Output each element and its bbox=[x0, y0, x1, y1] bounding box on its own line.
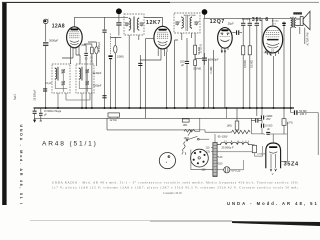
svg-text:.25μF: .25μF bbox=[227, 21, 234, 25]
svg-text:25V: 25V bbox=[266, 118, 271, 121]
svg-text:1/2: 1/2 bbox=[271, 50, 275, 53]
wire cap to IFT1 bottom bbox=[118, 26, 120, 36]
resistor on AVC small bbox=[182, 119, 189, 127]
svg-text:6V 0,25: 6V 0,25 bbox=[231, 168, 240, 172]
capacitor 50000pF under 12Q7 bbox=[198, 53, 207, 65]
wire mid columns bbox=[195, 50, 214, 108]
wire filter a bbox=[251, 108, 262, 120]
capacitor pair left of 35L6 b bbox=[248, 23, 252, 26]
capacitor 50MF bbox=[294, 110, 298, 115]
tube 12A8 bbox=[67, 27, 83, 48]
border left black bar bbox=[2, 2, 6, 205]
resistor diode load bbox=[194, 45, 197, 54]
svg-text:+4μF: +4μF bbox=[264, 51, 270, 54]
svg-text:15 000Ω 2 Mega: 15 000Ω 2 Mega bbox=[44, 111, 62, 113]
12K7 pin wires bbox=[158, 47, 167, 61]
wire 12K7 area columns bbox=[129, 44, 161, 108]
wire AVC cap to bus bbox=[110, 59, 112, 108]
wire speaker down bbox=[300, 27, 305, 44]
resistor box 12A8 screen bbox=[91, 47, 94, 54]
wire bar top up bbox=[214, 134, 216, 143]
IF transformer 2 bbox=[174, 13, 200, 33]
svg-text:μF: μF bbox=[181, 64, 184, 67]
svg-text:110: 110 bbox=[206, 146, 210, 149]
wire lamp bbox=[217, 160, 243, 170]
svg-text:7260pF: 7260pF bbox=[93, 83, 102, 87]
svg-text:35Z4: 35Z4 bbox=[284, 162, 299, 168]
svg-text:UNDA - Modd. AR 48, 51: UNDA - Modd. AR 48, 51 bbox=[227, 201, 317, 206]
volume pot bbox=[184, 129, 196, 140]
wire switch drop bbox=[182, 152, 186, 155]
AVC bus line bbox=[34, 117, 262, 119]
wire 35L6 cathode to bus bbox=[273, 56, 275, 108]
svg-text:12K7: 12K7 bbox=[146, 20, 161, 26]
third line (heater return) bbox=[107, 129, 184, 131]
svg-text:117 V; platea 12A8 125 V; sche: 117 V; platea 12A8 125 V; schermo 12A8 e… bbox=[52, 186, 298, 191]
svg-text:μF: μF bbox=[44, 115, 47, 117]
35Z4 cathode arrows bbox=[270, 169, 276, 176]
wire IFT2 column bbox=[167, 38, 187, 108]
electrolytic +10MF bbox=[261, 115, 273, 121]
capacitor pair left of 35L6 a bbox=[241, 23, 245, 26]
antenna terminal bbox=[43, 19, 48, 24]
svg-text:1 5 0 V: 1 5 0 V bbox=[224, 141, 249, 143]
resistor box right of chain bbox=[252, 145, 256, 152]
resistor 12K box on AVC bbox=[108, 113, 120, 122]
wire dot2 down bbox=[204, 15, 206, 19]
wire gnd b bbox=[40, 108, 42, 121]
svg-text:3000pF: 3000pF bbox=[49, 39, 58, 43]
12A8 top cap wire bbox=[73, 17, 75, 26]
wire dot1 down bbox=[118, 14, 120, 22]
IFT2 bottom stubs bbox=[182, 33, 192, 40]
svg-text:10 000: 10 000 bbox=[272, 21, 279, 23]
speaker bbox=[296, 11, 310, 30]
autotransformer tapped bbox=[213, 143, 217, 177]
svg-text:ALTOP. PM: ALTOP. PM bbox=[306, 33, 309, 46]
wire resistor columns to bus bbox=[243, 55, 250, 108]
pilot lamp bbox=[224, 167, 241, 173]
wire oval resistor bbox=[110, 38, 121, 108]
svg-text:20Ω: 20Ω bbox=[180, 60, 185, 63]
tube socket A bbox=[159, 153, 175, 169]
filter capacitor pair small bbox=[255, 119, 258, 123]
bus junction dots bbox=[45, 107, 292, 109]
bottom right page-edge wedge bbox=[232, 221, 320, 226]
wire bus to AVC drop bbox=[226, 108, 228, 118]
bottom hairline faint bbox=[30, 219, 150, 221]
svg-text:0,1M 25: 0,1M 25 bbox=[257, 154, 266, 156]
svg-text:1MΩ: 1MΩ bbox=[227, 124, 232, 127]
svg-text:[15]: [15] bbox=[13, 95, 17, 100]
wire IFT1 to 12K7 top bbox=[144, 18, 163, 27]
wire OPT primary bbox=[284, 17, 291, 108]
svg-text:+: + bbox=[263, 133, 265, 136]
IF transformer 1 bbox=[124, 14, 145, 35]
resistor 0,1Mohm box bbox=[248, 46, 251, 55]
ground cluster capacitor b bbox=[39, 113, 43, 116]
svg-text:1PΩ.: 1PΩ. bbox=[183, 125, 189, 127]
svg-text:25 000 pF: 25 000 pF bbox=[34, 89, 37, 100]
svg-text:0,5MΩ: 0,5MΩ bbox=[243, 60, 247, 68]
wire 12A8 pin drops bbox=[62, 55, 80, 64]
wire third line drop bbox=[106, 118, 108, 130]
tube 35L6 bbox=[263, 26, 283, 53]
35L6 top stub bbox=[272, 18, 274, 26]
wire 12A8 right columns bbox=[86, 42, 96, 108]
svg-text:10 μF: 10 μF bbox=[45, 81, 52, 85]
electrolytic horizontal + bbox=[263, 132, 270, 136]
wire column x104.5 bbox=[104, 17, 106, 108]
svg-text:2140pF: 2140pF bbox=[93, 71, 102, 75]
svg-text:Consumo 30 W.: Consumo 30 W. bbox=[163, 191, 183, 195]
svg-text:1 PΩ: 1 PΩ bbox=[287, 123, 292, 125]
svg-text:AR48 (51/1): AR48 (51/1) bbox=[42, 140, 97, 147]
capacitor x104.5 low bbox=[102, 95, 106, 98]
svg-text:95–105V: 95–105V bbox=[218, 136, 228, 139]
svg-text:125: 125 bbox=[206, 151, 211, 154]
resistor 0,1M right bbox=[282, 119, 293, 126]
electrolytic cap at OPT bbox=[282, 23, 286, 108]
tube 12Q7 bbox=[218, 28, 233, 49]
svg-text:μF: μF bbox=[267, 128, 270, 131]
resistor oval 12K7 grid bbox=[114, 45, 117, 53]
svg-text:10 000 Ω: 10 000 Ω bbox=[200, 44, 202, 54]
wire socket B frame bbox=[191, 150, 213, 170]
wire 0,1M right column bbox=[283, 108, 285, 134]
wire gang box pins to bus bbox=[58, 93, 90, 108]
electrolytic 10000uF bbox=[261, 124, 273, 131]
grid wire to IFT1 bbox=[74, 16, 128, 18]
wire chain right bbox=[252, 145, 263, 156]
svg-text:u: u bbox=[166, 161, 168, 164]
wire B+ column bbox=[261, 18, 263, 108]
tube 35Z4 bbox=[266, 143, 281, 168]
junction dot B+ right bbox=[202, 9, 208, 15]
resistor oval 12A8 bbox=[95, 47, 98, 54]
tuning gang box 1 (osc) bbox=[52, 64, 70, 93]
label 10000 5V bbox=[272, 21, 279, 26]
AVC dashed line bbox=[110, 34, 112, 55]
ground cluster capacitor a bbox=[33, 111, 37, 114]
border top line right (faded) bbox=[170, 1, 319, 3]
tap wires bbox=[211, 147, 218, 169]
12Q7 pin wires + cathode arrows bbox=[221, 47, 228, 53]
svg-text:12A8: 12A8 bbox=[52, 23, 65, 29]
wire 1M to bus bbox=[236, 108, 238, 132]
wire jog bbox=[82, 42, 97, 45]
wire pot to net bbox=[195, 118, 200, 131]
svg-text:12Q7: 12Q7 bbox=[210, 19, 225, 25]
wire 12Q7 cathode to bus bbox=[224, 53, 226, 108]
capacitor under dot1 bbox=[116, 22, 121, 25]
output transformer bbox=[291, 12, 302, 27]
label 50MF 135V bbox=[299, 109, 307, 116]
svg-text:35L 6: 35L 6 bbox=[252, 17, 269, 23]
capacitor x104.5 top bbox=[102, 30, 106, 33]
bottom hairline mid bbox=[150, 220, 232, 222]
svg-text:140: 140 bbox=[218, 156, 223, 159]
capacitor screen bypass bbox=[185, 61, 189, 64]
svg-text:3000μF 5000: 3000μF 5000 bbox=[184, 15, 197, 17]
junction dot B+ left bbox=[116, 8, 122, 14]
capacitor 12Q7 plate right bbox=[232, 30, 242, 35]
capacitor 3000pF bbox=[43, 42, 48, 46]
wire zigzag ends bbox=[184, 118, 256, 134]
tube socket B bbox=[191, 149, 209, 167]
capacitor 12K7 cathode bbox=[138, 63, 142, 66]
35L6 pin wires + arrows bbox=[265, 50, 279, 56]
wire antenna down bbox=[45, 24, 47, 42]
svg-text:50: 50 bbox=[85, 57, 88, 60]
mains switch bbox=[186, 136, 209, 141]
svg-text:1/2MΩ: 1/2MΩ bbox=[117, 57, 124, 59]
top right bus wire bbox=[204, 17, 291, 19]
svg-text:UNDA - Mod. AR 48, 51 I: UNDA - Mod. AR 48, 51 I bbox=[19, 125, 23, 205]
capacitor 10uF bbox=[43, 88, 47, 91]
svg-text:120: 120 bbox=[201, 169, 206, 172]
zigzag resistor bbox=[232, 130, 251, 134]
svg-text:UNDA RADIO - Mod. AR 48 e mod.: UNDA RADIO - Mod. AR 48 e mod. 51/1 - 3°… bbox=[52, 181, 298, 185]
main bus line bbox=[34, 107, 295, 109]
resistor 0,5Mohm box bbox=[242, 46, 245, 55]
12A8 pin wires bbox=[71, 45, 79, 63]
wire 35L6 grid columns bbox=[243, 18, 250, 46]
mains cord squiggle bbox=[183, 142, 186, 152]
capacitor pair cathode bbox=[255, 23, 259, 26]
wire diode load bbox=[195, 33, 198, 59]
IFT1 bottom stubs bbox=[129, 35, 139, 44]
svg-text:12 KΩ: 12 KΩ bbox=[110, 119, 117, 122]
wire 35L6 cathode columns bbox=[256, 18, 258, 108]
wire 50MF to right edge bbox=[291, 113, 319, 156]
svg-text:V: V bbox=[272, 172, 274, 176]
resistor 0,5M box mid bbox=[194, 60, 197, 66]
svg-text:25 800p F: 25 800p F bbox=[222, 145, 234, 149]
heater ballast chain bbox=[217, 141, 252, 145]
ground symbol bbox=[33, 108, 36, 122]
wire 35Z4 loop bbox=[266, 122, 287, 161]
wire electrolytics bbox=[256, 108, 264, 133]
wire dot2 column bbox=[203, 18, 205, 108]
svg-text:25 000 pF: 25 000 pF bbox=[98, 41, 101, 52]
svg-text:0,1MΩ: 0,1MΩ bbox=[250, 60, 254, 68]
svg-text:5 V: 5 V bbox=[273, 23, 277, 25]
tube 12K7 bbox=[154, 26, 171, 49]
wire heater chain lower bbox=[217, 151, 252, 153]
AVC capacitor black bbox=[108, 55, 112, 59]
capacitor 12A8 cathode bbox=[84, 53, 88, 56]
wire antenna to bus bbox=[45, 46, 47, 108]
svg-text:0,1MΩ: 0,1MΩ bbox=[211, 66, 213, 73]
12K7 grid side wire bbox=[146, 39, 154, 119]
svg-text:160: 160 bbox=[218, 162, 223, 165]
resistor 1M vertical bbox=[227, 121, 239, 130]
wire bus end jog bbox=[290, 108, 292, 112]
svg-text:0,5 MΩ: 0,5 MΩ bbox=[193, 67, 201, 70]
border top line bbox=[2, 1, 170, 3]
tuning gang box 2 (ant) bbox=[76, 64, 94, 93]
